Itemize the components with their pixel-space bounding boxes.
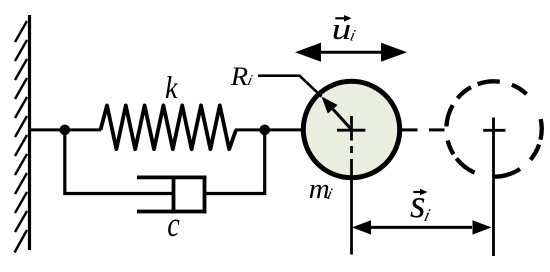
arrow s_i double-headed (368, 226, 472, 229)
svg-text:k: k (165, 71, 178, 106)
wire damper to right node (206, 130, 265, 194)
damper cylinder (137, 176, 206, 214)
spring k (101, 105, 237, 149)
arrow u_i double-headed (318, 51, 384, 54)
ghost circle (dashed) (446, 81, 541, 176)
junction node right (259, 125, 270, 136)
wire dot down to damper (65, 130, 172, 194)
wire spring to mass (235, 128, 304, 131)
connector line mass to ghost (402, 128, 418, 131)
wire wall to spring (30, 128, 102, 131)
centerline left circle (350, 116, 353, 255)
center cross ghost circle (483, 129, 505, 132)
junction node left (60, 125, 71, 136)
svg-text:c: c (167, 205, 179, 244)
centerline ghost circle (492, 118, 495, 257)
radius arrow R_i (333, 109, 352, 129)
mass circle m_i (303, 81, 399, 177)
center cross left circle (337, 129, 365, 132)
wall line (28, 15, 31, 250)
wall hatching (15, 21, 28, 253)
leader line R_i (258, 76, 322, 97)
